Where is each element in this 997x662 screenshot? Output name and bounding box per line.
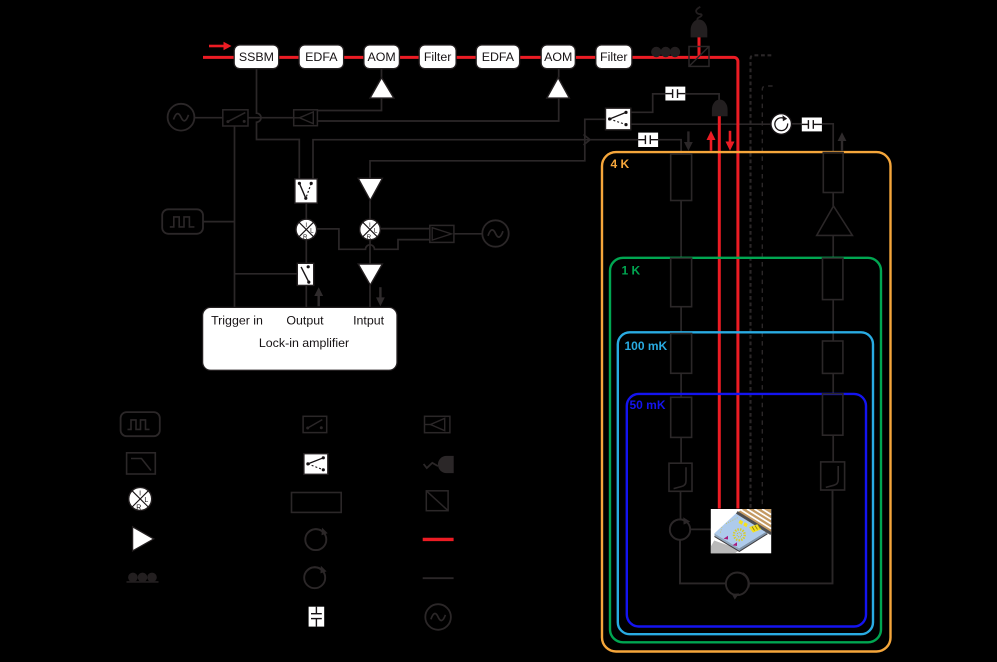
wire left chain box4-filter: [680, 437, 682, 463]
svg-text:AOM: AOM: [544, 50, 572, 64]
box Filter 1: [419, 45, 456, 69]
svg-text:I: I: [369, 222, 371, 229]
amplifier cryostat triangle: [817, 206, 853, 235]
wire red signal up line: [718, 114, 721, 509]
legend coupler: [425, 416, 450, 432]
wire cap1 to detector2: [685, 94, 719, 101]
filter right cryo: [821, 462, 845, 490]
wire left circle to bottom circle: [680, 540, 726, 583]
legend sine generator: [425, 604, 451, 630]
legend capacitor: [309, 607, 325, 627]
attenuator right 1: [823, 153, 843, 193]
wire switch3 top throw to cap1: [631, 94, 666, 112]
svg-text:EDFA: EDFA: [482, 50, 515, 64]
amplifier box right: [430, 225, 454, 242]
wire switch3 bottom throw to circulator: [631, 123, 771, 125]
wire left chain box2-box3: [680, 307, 682, 334]
attenuator left 2: [671, 258, 692, 307]
arrow gray up out of cryostat: [838, 132, 847, 151]
legend lowpass filter: [127, 453, 156, 474]
wire left circle to chip: [690, 528, 711, 530]
wire laser red main line: [203, 57, 738, 508]
capacitor 2: [802, 118, 822, 132]
wire mixer2 L to amp: [380, 228, 430, 230]
cryostat 1K box: [610, 258, 881, 643]
wire switch2 to lockin: [305, 285, 307, 307]
chip image: [711, 509, 771, 553]
legend red line optical: [423, 538, 454, 541]
svg-text:L: L: [310, 227, 314, 234]
sine generator 2: [482, 220, 508, 246]
piezo circle bottom: [726, 573, 749, 600]
svg-text:L: L: [144, 497, 148, 504]
capacitor 1: [665, 87, 685, 101]
svg-text:I: I: [139, 491, 141, 498]
wire circulator to cap2: [792, 123, 802, 125]
legend pulse generator: [121, 412, 160, 436]
svg-text:Intput: Intput: [353, 314, 385, 328]
svg-text:Lock-in amplifier: Lock-in amplifier: [259, 336, 349, 350]
wire pulse generator output: [203, 221, 235, 223]
switch 1: [223, 110, 248, 126]
svg-text:R: R: [303, 234, 308, 241]
attenuator right 2: [823, 258, 843, 299]
legend piezo circle 2: [304, 566, 326, 589]
wire junction to mixer2 lo feed: [370, 140, 585, 179]
legend device box: [292, 493, 342, 513]
attenuator right 3: [823, 341, 843, 373]
box EDFA 1: [299, 45, 344, 69]
wire AOM1 amp to AOM1: [381, 69, 383, 78]
svg-text:Trigger in: Trigger in: [211, 314, 263, 328]
box SSBM: [234, 45, 279, 69]
wire SSBM down with hop to VOA: [257, 69, 300, 179]
wire mixer1 L to amp lower input: [316, 229, 430, 249]
wire right chain box2-box3: [832, 300, 834, 341]
wire AOM2 amp to AOM2: [558, 69, 560, 78]
amplifier triangle down 2: [358, 264, 382, 285]
wire left filter to circle: [680, 491, 682, 519]
wire sine1 to switch: [194, 117, 222, 119]
photodetector 1: [691, 7, 708, 38]
lockin arrow output up: [314, 287, 323, 306]
arrow red up: [707, 131, 716, 151]
attenuator left 3: [671, 334, 692, 374]
wire switch to coupler: [248, 117, 294, 119]
amplifier triangle up AOM1: [370, 78, 394, 99]
legend photodetector: [424, 456, 454, 473]
capacitor 3: [638, 133, 658, 147]
box AOM 1: [364, 45, 400, 69]
beamsplitter top: [689, 47, 709, 67]
fiber loops polarization controller: [651, 47, 680, 57]
wire tri2 to lockin input: [369, 285, 371, 307]
pulse generator: [162, 209, 203, 234]
wire left chain box1-box2: [680, 201, 682, 259]
mixer 1: [296, 219, 317, 241]
wire switch3 common junction: [585, 119, 606, 139]
piezo circle left: [670, 517, 690, 540]
svg-text:100 mK: 100 mK: [625, 339, 668, 353]
sine generator 1: [168, 104, 195, 131]
wire cap3 into cryostat left chain: [658, 140, 681, 154]
amplifier triangle up AOM2: [547, 78, 570, 99]
svg-text:R: R: [367, 234, 372, 241]
circulator: [771, 114, 792, 135]
wire cap2 down into cryostat: [822, 124, 833, 153]
arrow red input direction: [209, 42, 232, 50]
svg-text:50 mK: 50 mK: [630, 398, 666, 412]
wire left chain box3-box4: [680, 373, 682, 397]
svg-text:R: R: [136, 504, 141, 511]
wire mixer2 top to tri1: [369, 200, 371, 219]
wire main rf line to cryostat: [313, 140, 638, 179]
wire dashed fiber 2: [762, 86, 772, 509]
wire right chain box4-filter: [832, 435, 834, 462]
box AOM 2: [541, 45, 575, 69]
amplifier triangle down 1: [358, 178, 382, 200]
attenuator left 1: [671, 154, 692, 201]
svg-text:SSBM: SSBM: [239, 50, 274, 64]
box Filter 2: [596, 45, 632, 69]
switch 2: [297, 263, 313, 285]
VOA switch box: [295, 179, 317, 203]
legend beamsplitter: [426, 491, 448, 511]
arrow rf flow chevron: [584, 135, 591, 145]
wire red beamsplitter to detector: [698, 37, 701, 57]
svg-text:AOM: AOM: [367, 50, 395, 64]
legend amplifier: [133, 527, 154, 551]
wire mixer1 top to VOA: [305, 203, 307, 219]
switch 3 SPDT: [606, 108, 631, 130]
legend SPDT switch: [304, 454, 328, 475]
attenuator left 4: [671, 397, 692, 437]
wire coupler upper out to AOM1 amp: [317, 98, 381, 110]
cryostat 4K box: [602, 152, 891, 651]
arrow black down into cryostat: [684, 131, 693, 150]
cryostat 50mK box: [627, 394, 866, 627]
wire right chain box1-amp: [832, 193, 834, 207]
legend piezo circle 1: [305, 528, 327, 551]
legend gray line electrical: [423, 577, 454, 579]
wire coupler lower out to AOM2 amp: [317, 98, 558, 121]
wire trigger vertical: [234, 126, 236, 307]
svg-text:4 K: 4 K: [611, 157, 630, 171]
cryostat 100mK box: [618, 332, 873, 634]
box EDFA 2: [476, 45, 519, 69]
svg-text:Filter: Filter: [424, 50, 452, 64]
lockin amplifier box: [203, 307, 397, 370]
svg-text:Filter: Filter: [600, 50, 628, 64]
legend fiber loops: [127, 573, 159, 583]
mixer 2: [360, 219, 381, 241]
wire dashed fiber 1: [751, 55, 772, 508]
filter left cryo: [669, 463, 692, 491]
wire right amp to box2: [832, 235, 834, 257]
photodetector 2: [712, 100, 728, 117]
wire right chain box3-box4: [832, 373, 834, 393]
svg-text:EDFA: EDFA: [305, 50, 338, 64]
attenuator right 4: [823, 394, 843, 435]
lockin arrow input down: [376, 287, 385, 306]
wire mixer1 bottom to switch2: [305, 240, 307, 263]
svg-text:Output: Output: [286, 314, 324, 328]
wire bottom circle to right chain: [749, 490, 833, 583]
wire amp to sine2: [454, 233, 483, 235]
arrow red down: [726, 131, 735, 151]
svg-text:L: L: [374, 227, 378, 234]
legend switch: [303, 416, 327, 432]
svg-text:I: I: [305, 222, 307, 229]
coupler: [294, 110, 318, 126]
svg-text:1 K: 1 K: [622, 264, 641, 278]
wire trigger branch to switch2: [235, 273, 298, 275]
legend mixer: [129, 487, 152, 511]
wire mixer2 bottom to tri2: [369, 240, 371, 264]
